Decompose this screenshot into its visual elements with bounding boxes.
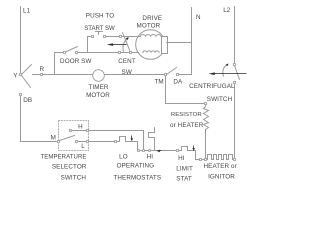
svg-text:or HEATER: or HEATER	[170, 122, 204, 129]
wire door branch right to motor	[78, 52, 139, 54]
wire N rail	[179, 8, 192, 75]
contact circles	[19, 35, 235, 160]
selector contact M	[57, 140, 59, 142]
annotation arrows	[107, 37, 229, 152]
run winding	[140, 35, 161, 37]
push-to-start actuator	[96, 31, 103, 33]
wire door riser	[54, 53, 56, 75]
wire L1 lower segment	[20, 96, 22, 142]
left arrow right tail	[214, 73, 247, 75]
svg-text:IGNITOR: IGNITOR	[208, 173, 235, 180]
node Y pivot	[19, 73, 21, 75]
wire right riser heater to cent switch	[234, 84, 236, 159]
svg-text:START SW: START SW	[84, 25, 115, 32]
wire motor to N rail	[167, 42, 192, 44]
LO arrow tail	[131, 136, 133, 139]
svg-text:MOTOR: MOTOR	[86, 92, 110, 99]
cent switch L2 contact	[233, 63, 235, 65]
HI operating thermostat arrow	[156, 150, 159, 153]
rotation arc	[123, 38, 128, 52]
selector contact L	[75, 140, 77, 142]
svg-text:MOTOR: MOTOR	[136, 23, 160, 30]
centrifugal start blade	[123, 33, 131, 53]
heater terminal inner	[204, 158, 206, 160]
selector blade M	[60, 136, 75, 141]
svg-text:SWITCH: SWITCH	[207, 96, 233, 103]
start winding	[143, 51, 159, 53]
LO thermostat bump	[117, 137, 138, 151]
svg-text:LO: LO	[119, 153, 128, 160]
timer switch blade Y-R	[22, 65, 32, 75]
svg-text:OPERATING: OPERATING	[117, 163, 155, 170]
svg-text:HEATER or: HEATER or	[204, 163, 237, 170]
svg-text:R: R	[40, 66, 45, 73]
wire selector H row	[73, 130, 87, 132]
svg-text:TM: TM	[154, 79, 163, 86]
HI LIMIT contact	[176, 149, 178, 151]
cent switch lower contact b	[129, 51, 131, 53]
svg-text:CENT: CENT	[118, 58, 136, 65]
svg-text:LIMIT: LIMIT	[176, 166, 193, 173]
left arrow cent switch right	[209, 72, 215, 75]
cent switch lower contact a	[118, 51, 120, 53]
centrifugal heater blade	[235, 66, 240, 80]
rotation arc right	[223, 64, 228, 76]
start switch contact right	[103, 35, 105, 37]
wire riser to push-to-start	[88, 37, 91, 53]
timer motor M1	[93, 70, 105, 82]
node DA	[176, 73, 178, 75]
svg-text:STAT: STAT	[176, 176, 192, 183]
wire L line to LO thermostat	[89, 141, 115, 143]
svg-text:HI: HI	[147, 153, 154, 160]
wire start sw to cent contact	[106, 36, 120, 38]
timer switch blade Y-DB	[22, 76, 31, 88]
cent switch upper contact	[119, 35, 121, 37]
motor U1 circle	[136, 30, 166, 60]
wire selector L row	[79, 141, 87, 143]
wire main run R to TM	[43, 74, 165, 76]
svg-text:RESISTOR: RESISTOR	[171, 112, 202, 118]
heater right terminal	[233, 158, 235, 160]
motor terminal block	[162, 37, 168, 54]
door switch blade	[67, 47, 78, 52]
HI operating arrow tail	[160, 150, 162, 152]
svg-text:TEMPERATURE: TEMPERATURE	[41, 155, 87, 161]
wire R stub	[33, 74, 40, 76]
door switch contact right	[75, 51, 77, 53]
HI operating thermostat jog	[149, 128, 155, 151]
wire to selector M	[21, 141, 57, 143]
selector contact H	[69, 129, 71, 131]
svg-text:DRIVE: DRIVE	[142, 15, 162, 22]
door switch contact left	[63, 51, 65, 53]
left arrow motor tail	[112, 44, 127, 46]
svg-text:N: N	[196, 14, 201, 21]
svg-text:PUSH TO: PUSH TO	[86, 13, 114, 20]
svg-text:H: H	[78, 123, 83, 130]
wire L1 rail	[20, 7, 22, 74]
wire heater left stub	[202, 159, 205, 161]
svg-text:M: M	[51, 134, 56, 141]
heater terminal outer	[199, 158, 201, 160]
arc arrowhead right	[226, 64, 229, 67]
svg-text:HI: HI	[178, 155, 185, 162]
svg-text:DA: DA	[173, 79, 183, 86]
wire H line to drop	[89, 131, 144, 151]
svg-text:DB: DB	[23, 97, 32, 104]
node DB	[19, 93, 21, 95]
HI LIMIT stat bump	[179, 147, 200, 160]
svg-text:SW: SW	[122, 69, 132, 76]
node TM	[164, 73, 166, 75]
svg-text:L2: L2	[223, 7, 231, 14]
LO thermostat arrow	[131, 138, 133, 141]
selector H box edge node	[86, 129, 88, 131]
bottom line node 1	[137, 149, 139, 151]
HI LIMIT arrow	[193, 148, 195, 151]
svg-text:L: L	[81, 143, 85, 150]
bottom line node 3	[148, 149, 150, 151]
svg-text:DOOR SW: DOOR SW	[60, 58, 91, 65]
left arrow motor cent switch	[107, 43, 113, 46]
selector L box edge node	[86, 140, 88, 142]
svg-text:SWITCH: SWITCH	[61, 175, 87, 182]
bottom line node 2	[142, 149, 144, 151]
svg-text:SELECTOR: SELECTOR	[52, 164, 87, 171]
svg-text:THERMOSTATS: THERMOSTATS	[113, 174, 161, 181]
svg-text:TIMER: TIMER	[88, 84, 108, 91]
timer contact blade TM	[167, 68, 177, 75]
node R	[40, 73, 42, 75]
LO thermostat contact	[114, 140, 116, 142]
heater element square wave	[207, 155, 234, 160]
wire door branch left	[55, 52, 64, 54]
wire L2 rail	[234, 7, 236, 63]
svg-text:Y: Y	[13, 73, 18, 80]
start switch contact left	[91, 35, 93, 37]
arc arrowhead motor	[126, 37, 129, 40]
resistor top node	[204, 102, 206, 104]
cent switch heater contact	[233, 81, 235, 83]
wire TM branch to resistor	[166, 77, 205, 104]
svg-text:L1: L1	[23, 8, 31, 15]
resistor zigzag	[204, 106, 209, 160]
svg-text:CENTRIFUGAL: CENTRIFUGAL	[189, 83, 235, 90]
temperature selector box	[59, 121, 89, 151]
HI LIMIT arrow tail	[193, 146, 195, 149]
wire bottom thermostat line	[138, 150, 177, 152]
